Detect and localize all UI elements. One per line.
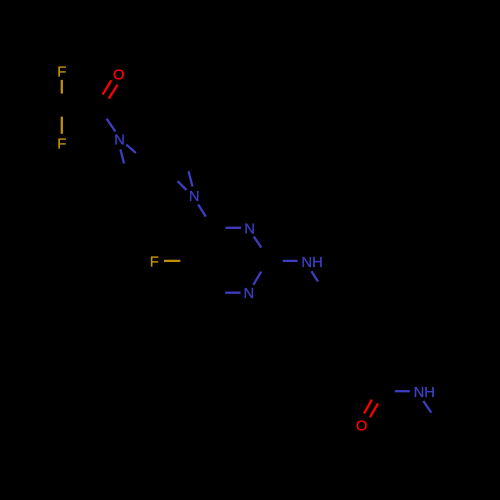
bond Cb=O1 main line (red half) xyxy=(109,85,118,99)
bond N6-C5a (blue half) xyxy=(189,171,193,186)
bond N6-C7a (blue half) xyxy=(178,181,187,190)
bond N1-C4a (blue half) xyxy=(120,149,124,163)
bond N3pym-C2pym (blue half) xyxy=(254,237,261,248)
bond N1-C2a (blue half) xyxy=(126,145,136,153)
svg-text:N: N xyxy=(244,221,255,237)
bond NH-CH2 ethyl (blue half) xyxy=(423,401,431,413)
bond F3-C5pym (gold half) xyxy=(164,260,180,262)
bond N1pym-C2pym (blue half) xyxy=(253,272,261,285)
svg-text:N: N xyxy=(114,133,125,149)
bond N1-Cb (blue half) xyxy=(107,119,116,132)
bond N6-C4pym (blue half) xyxy=(198,205,206,217)
svg-text:F: F xyxy=(150,255,159,271)
bond Cam=O2 main line (red half) xyxy=(370,404,378,418)
bond Cb=O1 second line (red half) xyxy=(103,80,112,94)
bond F2-Ca (gold half) xyxy=(61,117,63,134)
svg-text:O: O xyxy=(356,419,368,435)
bond C2pym-NH (blue half) xyxy=(283,260,298,262)
bond Cam-NH (blue half) xyxy=(395,390,410,392)
svg-text:F: F xyxy=(57,65,66,81)
svg-text:F: F xyxy=(57,137,66,153)
bond F1-Ca (gold half) xyxy=(61,80,63,94)
bond NH-C1phenyl (blue half) xyxy=(311,271,318,281)
svg-text:N: N xyxy=(189,189,200,205)
bond N3pym-C4pym (blue half) xyxy=(226,227,241,229)
svg-text:O: O xyxy=(113,68,125,84)
svg-text:NH: NH xyxy=(414,385,435,401)
svg-text:NH: NH xyxy=(301,255,322,271)
bond Cam=O2 second line (red half) xyxy=(364,400,372,414)
bond N1pym-C6pym (blue half) xyxy=(225,292,240,294)
svg-text:N: N xyxy=(244,286,255,302)
